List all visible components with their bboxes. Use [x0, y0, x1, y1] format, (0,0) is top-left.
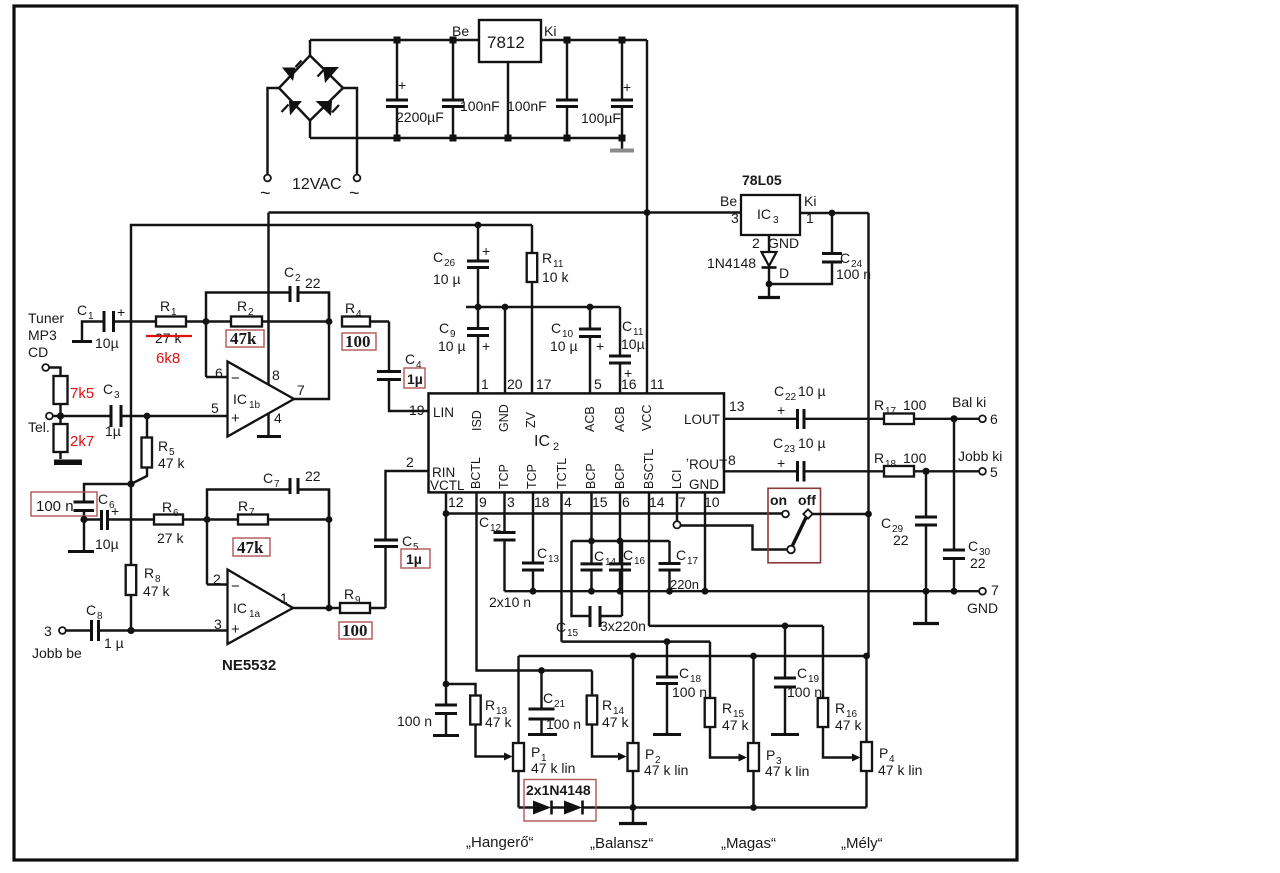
- IC2 top pin numbers: [481, 376, 665, 392]
- svg-text:C: C: [622, 318, 632, 334]
- capacitor C6 100n: [31, 484, 131, 520]
- node C6/R5 bias node: [127, 480, 134, 487]
- svg-text:IC: IC: [757, 206, 771, 222]
- svg-text:47 k: 47 k: [722, 717, 749, 733]
- switch on/off: [768, 488, 872, 563]
- terminal CD input: [42, 364, 60, 376]
- svg-text:Ki: Ki: [804, 193, 816, 209]
- svg-text:1b: 1b: [249, 400, 261, 411]
- svg-text:2x1N4148: 2x1N4148: [526, 782, 591, 798]
- capacitor C10 10u: [550, 307, 604, 393]
- svg-text:+: +: [623, 79, 631, 95]
- wire 0V bottom rail: [310, 137, 622, 139]
- svg-text:12: 12: [448, 494, 464, 510]
- svg-text:C: C: [405, 351, 415, 367]
- svg-text:C: C: [556, 619, 566, 635]
- resistor 2k7: [54, 416, 95, 459]
- node F (C8/R8/pin3): [127, 627, 134, 634]
- svg-text:LCI: LCI: [670, 470, 684, 489]
- svg-text:10 k: 10 k: [542, 269, 569, 285]
- svg-text:47 k: 47 k: [602, 714, 629, 730]
- capacitor C14: [581, 493, 617, 592]
- svg-text:C: C: [263, 470, 273, 486]
- svg-text:C: C: [402, 533, 412, 549]
- resistor R9 100: [329, 586, 386, 640]
- svg-text:1: 1: [481, 376, 489, 392]
- svg-text:R: R: [602, 697, 612, 713]
- capacitor C29 22: [881, 471, 937, 591]
- diode bridge top-right: [318, 67, 340, 83]
- capacitor 2200uF: [386, 40, 444, 138]
- svg-text:47 k lin: 47 k lin: [765, 763, 809, 779]
- IC2 bottom pin labels (vertical): [469, 449, 684, 489]
- svg-text:3: 3: [507, 494, 515, 510]
- wire bias bus L (vertical + horizontal to R11): [131, 225, 532, 484]
- IC2 box: [429, 393, 728, 493]
- capacitor C1 10u: [72, 302, 156, 351]
- svg-text:47 k: 47 k: [835, 717, 862, 733]
- svg-text:1: 1: [171, 307, 177, 318]
- svg-text:C: C: [543, 690, 553, 706]
- svg-text:4: 4: [356, 309, 362, 320]
- svg-text:220n: 220n: [670, 577, 699, 592]
- svg-text:4: 4: [564, 494, 572, 510]
- svg-text:100 n: 100 n: [36, 498, 74, 515]
- diode D 1N4148: [707, 235, 789, 284]
- capacitor C26 10u: [433, 222, 490, 307]
- svg-text:+: +: [777, 455, 785, 471]
- svg-text:3: 3: [731, 210, 739, 226]
- svg-text:+: +: [777, 402, 785, 418]
- resistor R1: [155, 298, 206, 346]
- svg-text:P: P: [766, 747, 775, 763]
- label Hangero: [466, 834, 534, 851]
- svg-text:100: 100: [342, 621, 368, 640]
- diode bridge bottom-left: [282, 101, 303, 116]
- svg-text:15: 15: [592, 494, 608, 510]
- capacitor C5 1u: [374, 454, 430, 608]
- svg-text:−: −: [231, 370, 240, 387]
- resistor R17 100: [874, 397, 979, 424]
- resistor R18 100: [874, 450, 979, 477]
- svg-text:3: 3: [773, 215, 779, 226]
- potentiometer P3 47k lin: [748, 656, 809, 808]
- svg-text:4: 4: [416, 360, 422, 371]
- svg-text:15: 15: [567, 628, 579, 639]
- svg-text:26: 26: [444, 258, 456, 269]
- svg-text:Jobb be: Jobb be: [32, 645, 82, 661]
- svg-text:1: 1: [280, 590, 288, 606]
- svg-text:BCP: BCP: [584, 463, 598, 489]
- svg-text:R: R: [542, 250, 552, 266]
- svg-text:C: C: [433, 249, 443, 265]
- capacitor 100uF: [581, 40, 633, 138]
- wire decoupling bus (pin20): [466, 304, 620, 311]
- svg-text:+: +: [624, 365, 632, 381]
- svg-text:2: 2: [295, 273, 301, 284]
- terminal Jobb be: [32, 623, 82, 661]
- svg-text:R: R: [144, 565, 154, 581]
- svg-text:10 µ: 10 µ: [550, 338, 578, 354]
- wire pin10 GND: [704, 493, 706, 592]
- svg-text:47 k lin: 47 k lin: [644, 762, 688, 778]
- svg-text:22: 22: [785, 392, 797, 403]
- op-amp IC1a: [207, 570, 293, 675]
- svg-text:2: 2: [553, 441, 559, 453]
- junction dots power rails: [394, 37, 626, 142]
- svg-text:100 n: 100 n: [397, 713, 432, 729]
- ground below P2: [619, 808, 647, 824]
- terminal GND 7: [967, 582, 999, 616]
- svg-text:47k: 47k: [230, 329, 257, 348]
- svg-text:5: 5: [990, 464, 998, 480]
- ground below 100uF: [610, 138, 634, 151]
- node C21 tap: [538, 667, 545, 674]
- ground below C6: [68, 520, 94, 552]
- potentiometer P2 47k lin: [628, 656, 689, 808]
- svg-text:1µ: 1µ: [406, 551, 422, 567]
- svg-text:2: 2: [248, 307, 254, 318]
- terminal Bal ki 6: [952, 394, 998, 427]
- svg-text:17: 17: [536, 376, 552, 392]
- capacitor C13: [489, 493, 560, 611]
- resistor 7k5: [54, 376, 95, 416]
- node Tel: [57, 412, 64, 419]
- svg-text:8: 8: [728, 452, 736, 468]
- svg-text:27 k: 27 k: [155, 330, 182, 346]
- svg-text:C: C: [797, 665, 807, 681]
- svg-text:C: C: [676, 547, 686, 563]
- capacitor C3 1u: [103, 381, 228, 439]
- regulator 7812: [452, 20, 556, 138]
- svg-text:C: C: [773, 435, 783, 451]
- svg-text:+: +: [596, 338, 604, 354]
- svg-text:47 k lin: 47 k lin: [878, 762, 922, 778]
- capacitor C4 1u: [377, 322, 429, 419]
- svg-text:GND: GND: [689, 477, 719, 492]
- svg-text:BCTL: BCTL: [469, 457, 483, 489]
- ground below D: [758, 284, 780, 298]
- svg-text:C: C: [679, 665, 689, 681]
- svg-text:7: 7: [249, 507, 255, 518]
- wire IC3 Ki output: [800, 210, 869, 217]
- svg-text:1µ: 1µ: [105, 423, 121, 439]
- wire LOUT pin13: [724, 398, 798, 419]
- node C6 bottom: [80, 516, 87, 523]
- svg-text:R: R: [874, 397, 884, 413]
- wire TCTL line 641.6: [562, 638, 711, 645]
- svg-text:2x10 n: 2x10 n: [489, 594, 531, 610]
- op-amp IC1b: [206, 362, 305, 437]
- svg-text:22: 22: [305, 468, 321, 484]
- ground symbol below bus: [913, 591, 939, 623]
- svg-text:1 µ: 1 µ: [104, 635, 124, 651]
- svg-text:R: R: [835, 700, 845, 716]
- capacitor C24 100n: [766, 213, 871, 287]
- svg-text:8: 8: [97, 611, 103, 622]
- capacitor C18 100n: [653, 642, 707, 735]
- svg-text:18: 18: [534, 494, 550, 510]
- svg-text:6: 6: [622, 494, 630, 510]
- svg-text:3x220n: 3x220n: [600, 618, 646, 634]
- red annotation 27k strikethrough + 6k8: [146, 336, 192, 367]
- svg-text:100 n: 100 n: [836, 266, 871, 282]
- svg-text:47 k: 47 k: [485, 714, 512, 730]
- svg-text:7k5: 7k5: [70, 385, 94, 402]
- capacitor C22 10u: [774, 383, 884, 429]
- label Mely: [841, 835, 883, 852]
- svg-text:11: 11: [650, 376, 665, 392]
- svg-text:„Magas“: „Magas“: [721, 835, 776, 852]
- terminal AC2: [349, 175, 360, 203]
- svg-text:7: 7: [297, 382, 305, 398]
- svg-text:R: R: [237, 298, 247, 314]
- svg-text:C: C: [840, 250, 850, 266]
- svg-text:BCP: BCP: [613, 463, 627, 489]
- svg-text:R: R: [162, 499, 172, 515]
- potentiometer P1 47k lin: [513, 656, 575, 808]
- svg-text:ACB: ACB: [613, 406, 627, 432]
- label Magas: [721, 835, 776, 852]
- resistor R13 47k: [446, 684, 513, 761]
- wire top +12V rail: [310, 39, 647, 41]
- wire pin14 BSCTL: [648, 493, 650, 626]
- svg-text:C: C: [98, 491, 108, 507]
- svg-text:9: 9: [479, 494, 487, 510]
- svg-text:13: 13: [548, 554, 560, 565]
- capacitor C15 3x220n: [556, 541, 646, 639]
- svg-text:LOUT: LOUT: [684, 412, 720, 427]
- resistor R2 47k: [206, 298, 329, 348]
- svg-text:+: +: [111, 503, 119, 519]
- svg-text:R: R: [722, 700, 732, 716]
- svg-text:5: 5: [594, 376, 602, 392]
- svg-text:Jobb ki: Jobb ki: [958, 448, 1002, 464]
- wire IC1b output: [294, 293, 329, 400]
- svg-text:1µ: 1µ: [407, 371, 423, 387]
- svg-text:10µ: 10µ: [95, 335, 119, 351]
- capacitor C9 10u: [438, 307, 490, 393]
- capacitor C7 22 feedback: [207, 468, 329, 585]
- svg-text:ZV: ZV: [524, 411, 538, 428]
- svg-text:on: on: [770, 492, 787, 508]
- capacitor C23 10u: [773, 435, 884, 482]
- svg-text:2k7: 2k7: [70, 433, 94, 450]
- svg-text:10 µ: 10 µ: [433, 271, 461, 287]
- capacitor C8 1u: [66, 602, 228, 651]
- IC2 bottom pin numbers: [448, 494, 720, 510]
- svg-text:1: 1: [88, 311, 94, 322]
- svg-text:14: 14: [649, 494, 665, 510]
- svg-text:100nF: 100nF: [460, 98, 500, 114]
- svg-text:Tuner: Tuner: [28, 310, 64, 326]
- svg-text:18: 18: [885, 459, 897, 470]
- svg-text:47k: 47k: [237, 538, 264, 557]
- resistor R6 27k: [154, 499, 207, 546]
- node D (R6/R7/pin2): [204, 516, 211, 523]
- svg-text:1N4148: 1N4148: [707, 255, 756, 271]
- svg-text:C: C: [774, 383, 784, 399]
- wire +12V feed line to IC3 Be: [269, 209, 742, 216]
- resistor R5 47k: [131, 413, 185, 484]
- svg-text:R: R: [485, 697, 495, 713]
- label 12VAC: [292, 176, 342, 193]
- svg-text:100µF: 100µF: [581, 110, 621, 126]
- resistor R15 47k: [705, 642, 750, 762]
- capacitor 10u (C6 node): [84, 503, 154, 552]
- wire pin8 V+ vertical: [267, 213, 269, 386]
- svg-text:~: ~: [349, 183, 360, 203]
- svg-text:„Balansz“: „Balansz“: [590, 835, 653, 852]
- svg-text:2: 2: [752, 235, 760, 251]
- svg-text:47 k: 47 k: [158, 455, 185, 471]
- capacitor 100nF (left): [442, 40, 500, 138]
- capacitor C2 22 feedback: [206, 264, 329, 377]
- wire pin12 vertical: [443, 493, 450, 685]
- bridge rectifier diamond: [279, 40, 343, 138]
- svg-text:MP3: MP3: [28, 327, 57, 343]
- wire pots bottom line: [519, 804, 867, 811]
- capacitor C11 10u: [609, 307, 645, 393]
- svg-text:TCP: TCP: [525, 464, 539, 489]
- resistor R11 10k: [527, 225, 570, 393]
- svg-text:13: 13: [729, 398, 745, 414]
- svg-text:GND: GND: [967, 600, 998, 616]
- svg-text:23: 23: [784, 444, 796, 455]
- svg-text:LIN: LIN: [433, 405, 454, 420]
- svg-text:7: 7: [274, 479, 280, 490]
- svg-text:R: R: [238, 498, 248, 514]
- svg-text:C: C: [551, 320, 561, 336]
- diodes 2x1N4148: [524, 780, 596, 822]
- svg-text:100: 100: [345, 332, 371, 351]
- svg-text:IC: IC: [233, 391, 247, 407]
- terminal Jobb ki 5: [958, 448, 1002, 480]
- svg-text:R: R: [158, 438, 168, 454]
- svg-text:C: C: [594, 548, 604, 564]
- svg-text:GND: GND: [497, 404, 511, 432]
- wire ROUT pin8: [724, 452, 798, 471]
- node Bal ki / C30: [950, 415, 957, 422]
- wire ground bus: [505, 588, 980, 595]
- svg-text:+: +: [398, 77, 406, 93]
- svg-text:„Hangerő“: „Hangerő“: [466, 834, 534, 851]
- svg-text:22: 22: [305, 275, 321, 291]
- svg-text:100: 100: [903, 397, 927, 413]
- capacitor C21 100n: [528, 671, 581, 735]
- resistor R8 47k: [126, 484, 171, 631]
- svg-text:R: R: [160, 298, 170, 314]
- svg-text:6: 6: [990, 411, 998, 427]
- wire C15 top link: [572, 540, 670, 542]
- svg-text:6k8: 6k8: [156, 350, 180, 367]
- svg-text:17: 17: [687, 556, 699, 567]
- svg-text:C: C: [86, 602, 96, 618]
- svg-text:100: 100: [903, 450, 927, 466]
- svg-text:2: 2: [213, 571, 221, 587]
- svg-text:+: +: [231, 410, 240, 427]
- svg-text:P: P: [879, 745, 888, 761]
- node E (R7 out / C7 / output): [326, 516, 333, 523]
- capacitor C17 220n: [659, 541, 699, 592]
- svg-text:Bal ki: Bal ki: [952, 394, 986, 410]
- svg-text:C: C: [479, 514, 489, 530]
- svg-text:GND: GND: [768, 235, 799, 251]
- svg-text:C: C: [77, 302, 87, 318]
- capacitor C30 22: [943, 419, 991, 591]
- svg-text:20: 20: [507, 376, 523, 392]
- diode bridge top-left: [282, 61, 302, 82]
- resistor R16 47k: [818, 626, 863, 762]
- wire Ki vertical 5V line: [867, 213, 869, 656]
- capacitor C12: [479, 493, 516, 592]
- svg-text:2: 2: [406, 454, 414, 470]
- wire pin9 BCTL: [477, 493, 593, 671]
- wire right vertical from top rail down to VCC: [646, 40, 648, 393]
- IC2 top pin labels (vertical): [470, 404, 654, 432]
- svg-text:„Mély“: „Mély“: [841, 835, 883, 852]
- svg-text:10 µ: 10 µ: [438, 338, 466, 354]
- ground pin4 IC1b: [257, 413, 281, 437]
- svg-text:R: R: [874, 450, 884, 466]
- svg-text:3: 3: [44, 623, 52, 639]
- svg-text:7812: 7812: [487, 33, 525, 52]
- svg-text:IC: IC: [534, 433, 550, 450]
- svg-text:VCTL: VCTL: [430, 478, 465, 493]
- svg-text:10 µ: 10 µ: [798, 435, 826, 451]
- svg-text:NE5532: NE5532: [222, 657, 276, 674]
- svg-text:C: C: [439, 320, 449, 336]
- svg-text:VCC: VCC: [640, 405, 654, 431]
- svg-text:TCTL: TCTL: [555, 458, 569, 489]
- wire 5V pot supply line: [519, 653, 870, 660]
- wire bridge AC leads: [268, 88, 358, 175]
- svg-text:C: C: [623, 547, 633, 563]
- svg-text:10µ: 10µ: [621, 336, 645, 352]
- svg-text:22: 22: [893, 532, 909, 548]
- svg-text:27 k: 27 k: [157, 530, 184, 546]
- svg-text:1a: 1a: [249, 609, 261, 620]
- svg-text:R: R: [344, 586, 354, 602]
- svg-text:C: C: [968, 538, 978, 554]
- svg-text:~: ~: [260, 183, 271, 203]
- svg-text:R: R: [345, 300, 355, 316]
- svg-text:10: 10: [704, 494, 720, 510]
- node B (R2 out / C2 / R4 / output): [326, 318, 333, 325]
- node A (R1/R2/pin6 junction): [203, 318, 210, 325]
- svg-text:Tel.: Tel.: [28, 419, 50, 435]
- svg-text:D: D: [779, 265, 789, 281]
- svg-text:8: 8: [272, 367, 280, 383]
- svg-text:BSCTL: BSCTL: [642, 449, 656, 489]
- capacitor 100nF (right): [507, 40, 578, 138]
- svg-text:6: 6: [173, 508, 179, 519]
- svg-text:21: 21: [554, 699, 566, 710]
- svg-text:9: 9: [355, 595, 361, 606]
- capacitor C19 100n: [771, 626, 822, 735]
- svg-text:off: off: [798, 492, 816, 508]
- terminal AC1: [260, 175, 271, 203]
- svg-text:ʼROUT: ʼROUT: [686, 457, 727, 472]
- svg-text:100 n: 100 n: [546, 716, 581, 732]
- node pin12/R13: [443, 681, 450, 688]
- resistor R14 47k: [587, 671, 630, 761]
- svg-text:+: +: [117, 304, 125, 320]
- svg-text:+: +: [482, 243, 490, 259]
- node Jobb ki / C29: [922, 468, 929, 475]
- svg-text:5: 5: [211, 400, 219, 416]
- capacitor 100n (VCTL filter): [397, 684, 459, 736]
